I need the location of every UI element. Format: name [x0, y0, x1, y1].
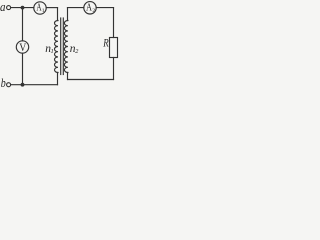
wire right side top	[113, 8, 115, 38]
wire secondary bottom lead	[67, 73, 69, 80]
wire voltmeter top branch	[22, 8, 24, 41]
wire A1 to primary top corner	[46, 7, 57, 9]
ammeter A1	[34, 2, 46, 14]
wire bottom right	[68, 79, 114, 81]
junction node bottom	[21, 83, 25, 87]
wire primary top lead	[57, 8, 59, 21]
wire secondary top to A2	[68, 7, 84, 9]
terminal b	[7, 83, 11, 87]
wire a to A1	[11, 7, 34, 9]
secondary coil n2 winding	[64, 21, 68, 73]
svg-text:R: R	[102, 37, 108, 49]
svg-text:a: a	[0, 0, 6, 14]
resistor R box	[110, 38, 118, 58]
svg-text:V: V	[19, 42, 27, 54]
wire voltmeter bottom branch	[22, 53, 24, 84]
ammeter A2	[84, 2, 96, 14]
svg-text:b: b	[1, 75, 6, 90]
terminal a	[7, 6, 11, 10]
wire secondary top lead	[67, 8, 69, 21]
wire primary bottom lead	[57, 73, 59, 85]
junction node top	[21, 6, 25, 10]
wire A2 to right corner	[96, 7, 113, 9]
transformer core	[60, 18, 62, 75]
background	[0, 0, 121, 91]
primary coil n1 winding	[54, 21, 58, 73]
voltmeter V	[16, 41, 28, 53]
wire bottom left	[11, 84, 58, 86]
wire right side bottom	[113, 58, 115, 80]
